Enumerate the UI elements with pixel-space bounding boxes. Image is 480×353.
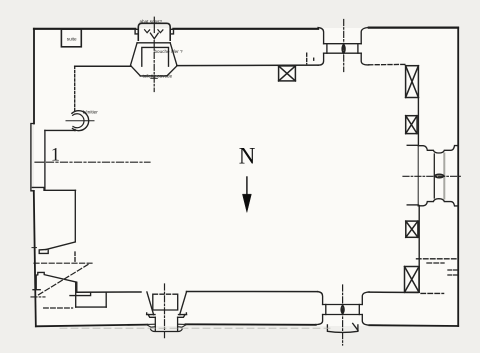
east portal opening west rail <box>433 154 435 198</box>
SE chapel dashed line 1 <box>417 258 457 260</box>
north wall pier (X box) <box>279 66 296 81</box>
west axis dash-dot line <box>47 161 151 163</box>
svg-text:abat sons?: abat sons? <box>140 19 163 24</box>
benitier inner arc <box>73 114 84 128</box>
south portal splay foot right <box>179 313 187 315</box>
east inner wall lower <box>418 206 420 293</box>
east portal opening east rail (faint) <box>443 154 445 199</box>
SW polygon (second stair) <box>36 272 77 292</box>
inner wall west below benitier <box>74 130 76 131</box>
west porch splay left <box>131 43 138 65</box>
south portal right pennant <box>178 324 187 327</box>
east portal north jamb tick <box>407 144 418 146</box>
inner wall top east segment (dashed) <box>369 63 406 65</box>
SW stair hook <box>39 250 48 254</box>
north portal left outer flare <box>318 28 324 44</box>
SW alcove bottom <box>76 306 107 308</box>
south portal right splay <box>180 292 187 315</box>
SE chapel dash 3 <box>448 269 457 271</box>
SE portal top rail <box>323 304 363 306</box>
outer wall left bulge <box>31 124 34 191</box>
SW axis dash at wall <box>31 296 45 298</box>
east portal north jamb <box>418 146 458 153</box>
SW alcove step tick <box>70 292 91 295</box>
SE portal left inner flare <box>318 292 323 305</box>
inner wall west dashes below slope <box>74 252 76 263</box>
svg-text:bouche / fer ?: bouche / fer ? <box>155 49 184 54</box>
north portal centerline <box>343 20 345 72</box>
inner wall top middle segment <box>177 64 318 67</box>
SE portal right inner flare <box>362 292 369 305</box>
west porch splay right <box>170 43 177 65</box>
west bay left side <box>44 130 46 190</box>
inner wall top west segment <box>75 65 132 67</box>
bell gable center chevron <box>150 33 158 39</box>
south portal threshold <box>151 329 183 331</box>
SE portal waist left <box>325 305 327 315</box>
SE portal waist right <box>358 305 360 315</box>
north portal right outer flare <box>361 28 369 44</box>
SW dashed line horizontal <box>34 262 92 264</box>
SW polygon bottom edge <box>33 289 40 291</box>
east wall pier R2 <box>406 116 417 134</box>
west porch top line <box>137 42 170 44</box>
niche box top-left <box>61 29 81 47</box>
bell gable right tick <box>158 30 163 33</box>
inner wall bottom middle segment <box>187 291 318 293</box>
north arrow shaft <box>246 177 248 197</box>
west bay bottom <box>32 187 75 190</box>
SE portal bottom rail <box>323 314 363 316</box>
bell gable left tick <box>145 30 150 33</box>
west porch centerline tick <box>151 77 158 79</box>
svg-text:suite: suite <box>67 36 77 41</box>
west porch centerline <box>153 41 155 92</box>
west porch lower trapezoid right <box>167 66 177 76</box>
west porch lower trapezoid left <box>131 66 140 76</box>
SE chapel dashed line 5 <box>421 292 444 294</box>
inner wall bottom east segment <box>369 291 417 293</box>
svg-text:N: N <box>239 144 256 169</box>
SW dashed diagonal <box>39 265 89 295</box>
south portal jamb left vertical <box>154 317 156 330</box>
north arrow head <box>243 194 252 212</box>
east portal south jamb <box>418 199 458 206</box>
east wall pier R4 <box>405 267 420 293</box>
SW alcove west vertical <box>75 283 77 307</box>
east portal south jamb tick <box>407 204 418 206</box>
inner wall bottom west segment <box>77 291 141 293</box>
outer wall left <box>34 29 36 327</box>
SE portal diagonal tick <box>353 323 358 330</box>
east wall pier R1 <box>406 66 419 98</box>
benitier axis line <box>66 120 94 122</box>
south portal jamb step right <box>178 315 185 318</box>
SE portal centerline <box>342 285 344 345</box>
inner wall west (dashed upper) <box>74 66 76 111</box>
SW wall tick <box>32 247 37 249</box>
building interior fill <box>34 28 458 326</box>
east portal door leaf <box>434 174 444 178</box>
svg-text:bénitier: bénitier <box>83 109 99 114</box>
bell gable right ear <box>170 29 173 34</box>
north portal door leaf <box>342 44 345 53</box>
south portal left splay <box>147 292 154 315</box>
benitier outer arc <box>72 111 89 131</box>
SE portal door leaf <box>341 305 344 313</box>
north portal waist left <box>326 44 328 54</box>
faint shadow line below bottom wall <box>60 327 330 329</box>
inner wall west lower <box>74 190 76 241</box>
north portal bottom rail <box>324 52 362 54</box>
north portal dashes left <box>306 53 308 64</box>
south portal splay foot left <box>147 313 155 315</box>
east portal wall face through opening <box>417 146 419 206</box>
south portal recess <box>153 294 178 310</box>
SE portal outer step <box>327 325 358 333</box>
bell gable left ear <box>135 29 138 34</box>
west axis tick through wall <box>35 161 44 163</box>
west porch lower trapezoid bottom <box>140 75 167 77</box>
north portal right inner flare <box>361 53 369 65</box>
bell gable box <box>138 23 170 40</box>
east inner wall upper <box>417 98 419 145</box>
outer wall top <box>34 28 458 29</box>
svg-text:toilette cavede: toilette cavede <box>143 73 173 78</box>
west porch recess <box>142 47 169 66</box>
SE chapel dash 4 <box>448 274 457 276</box>
SW alcove bottom dashes <box>44 307 73 309</box>
south portal recess top dashes <box>154 293 178 295</box>
south portal left pennant <box>146 324 155 327</box>
outer wall right <box>457 28 459 326</box>
SW alcove east vertical <box>105 292 107 307</box>
SE portal left outer flare <box>316 315 323 325</box>
south portal jamb step left <box>148 315 155 318</box>
SE portal right outer flare <box>362 315 369 326</box>
outer wall bottom <box>36 324 458 326</box>
south portal centerline <box>164 284 166 339</box>
south portal jamb right vertical <box>177 317 179 330</box>
bell gable center vertical <box>153 17 155 32</box>
west bay top <box>45 129 75 131</box>
north portal top rail <box>324 43 362 45</box>
north portal waist right <box>357 44 359 54</box>
east portal centerline <box>403 175 463 177</box>
north portal left inner flare <box>318 53 324 65</box>
east wall pier R3 <box>406 221 418 237</box>
SE chapel dashed line 2 <box>427 262 444 264</box>
SW stair slope <box>46 242 75 250</box>
